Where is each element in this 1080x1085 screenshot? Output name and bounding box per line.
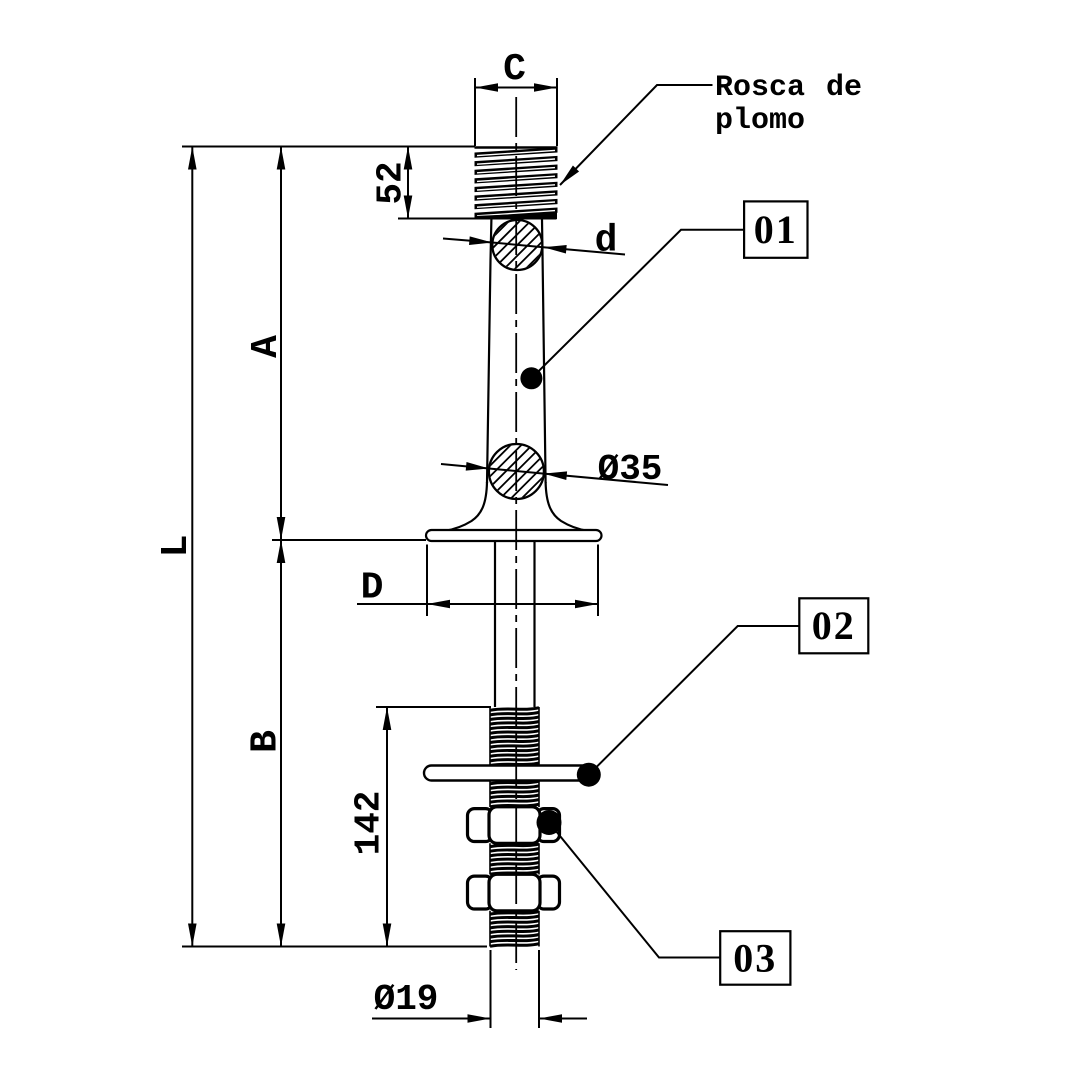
dimension B [277,540,286,563]
extension line bottom (y=946.5) [182,946,487,948]
svg-text:D: D [361,567,384,610]
svg-text:A: A [245,335,288,358]
svg-text:142: 142 [349,791,390,856]
svg-text:52: 52 [371,161,412,204]
part: tapered shank (neck) [487,220,546,484]
svg-text:C: C [503,48,526,91]
dimension L [191,147,193,947]
dimension d through-line [492,243,543,248]
part: threaded rod segment 4 [490,912,539,947]
svg-text:plomo: plomo [715,104,805,138]
svg-text:de: de [826,71,862,105]
svg-text:d: d [595,220,618,263]
extension line thread bottom (y=218.5) [398,218,556,220]
part: top lead-screw thread (rosca de plomo) [475,147,558,219]
dimension O35 through-line [489,469,544,474]
svg-text:03: 03 [733,935,777,980]
part: hex nut 2 [468,874,560,911]
part: threaded rod segment 1 [490,708,539,766]
svg-text:L: L [155,535,198,558]
dimension D [427,545,598,617]
part: threaded rod segment 3 [490,844,539,874]
extension line top (y=146.5) [182,146,475,148]
svg-text:01: 01 [754,207,798,252]
dimension O19 [491,950,540,1028]
center line [515,97,517,970]
callout 01 [531,230,744,378]
part: hex nut 1 [468,807,560,844]
svg-text:Ø35: Ø35 [598,449,663,490]
part: threaded rod segment 2 [490,781,539,807]
callout 03 [549,823,720,958]
svg-text:Rosca: Rosca [715,71,805,105]
part: lower stem [495,541,535,707]
part: washer [424,766,598,781]
svg-text:02: 02 [812,603,856,648]
extension line 142 top (y=707) [376,706,491,708]
svg-text:Ø19: Ø19 [374,979,439,1020]
extension line base level (y=540) [272,539,426,541]
callout 02 [589,626,800,775]
dimension 142 [386,707,388,947]
svg-text:B: B [245,730,288,753]
dimension O35 leader arrows [441,464,489,469]
dimension 52 [407,147,409,219]
leader: rosca de plomo [560,85,713,185]
dimension d leader arrows [443,239,492,243]
part: base plate [426,530,602,541]
dimension C [475,78,557,146]
dimension A [280,147,282,541]
part: base flare (trumpet) [445,482,588,531]
